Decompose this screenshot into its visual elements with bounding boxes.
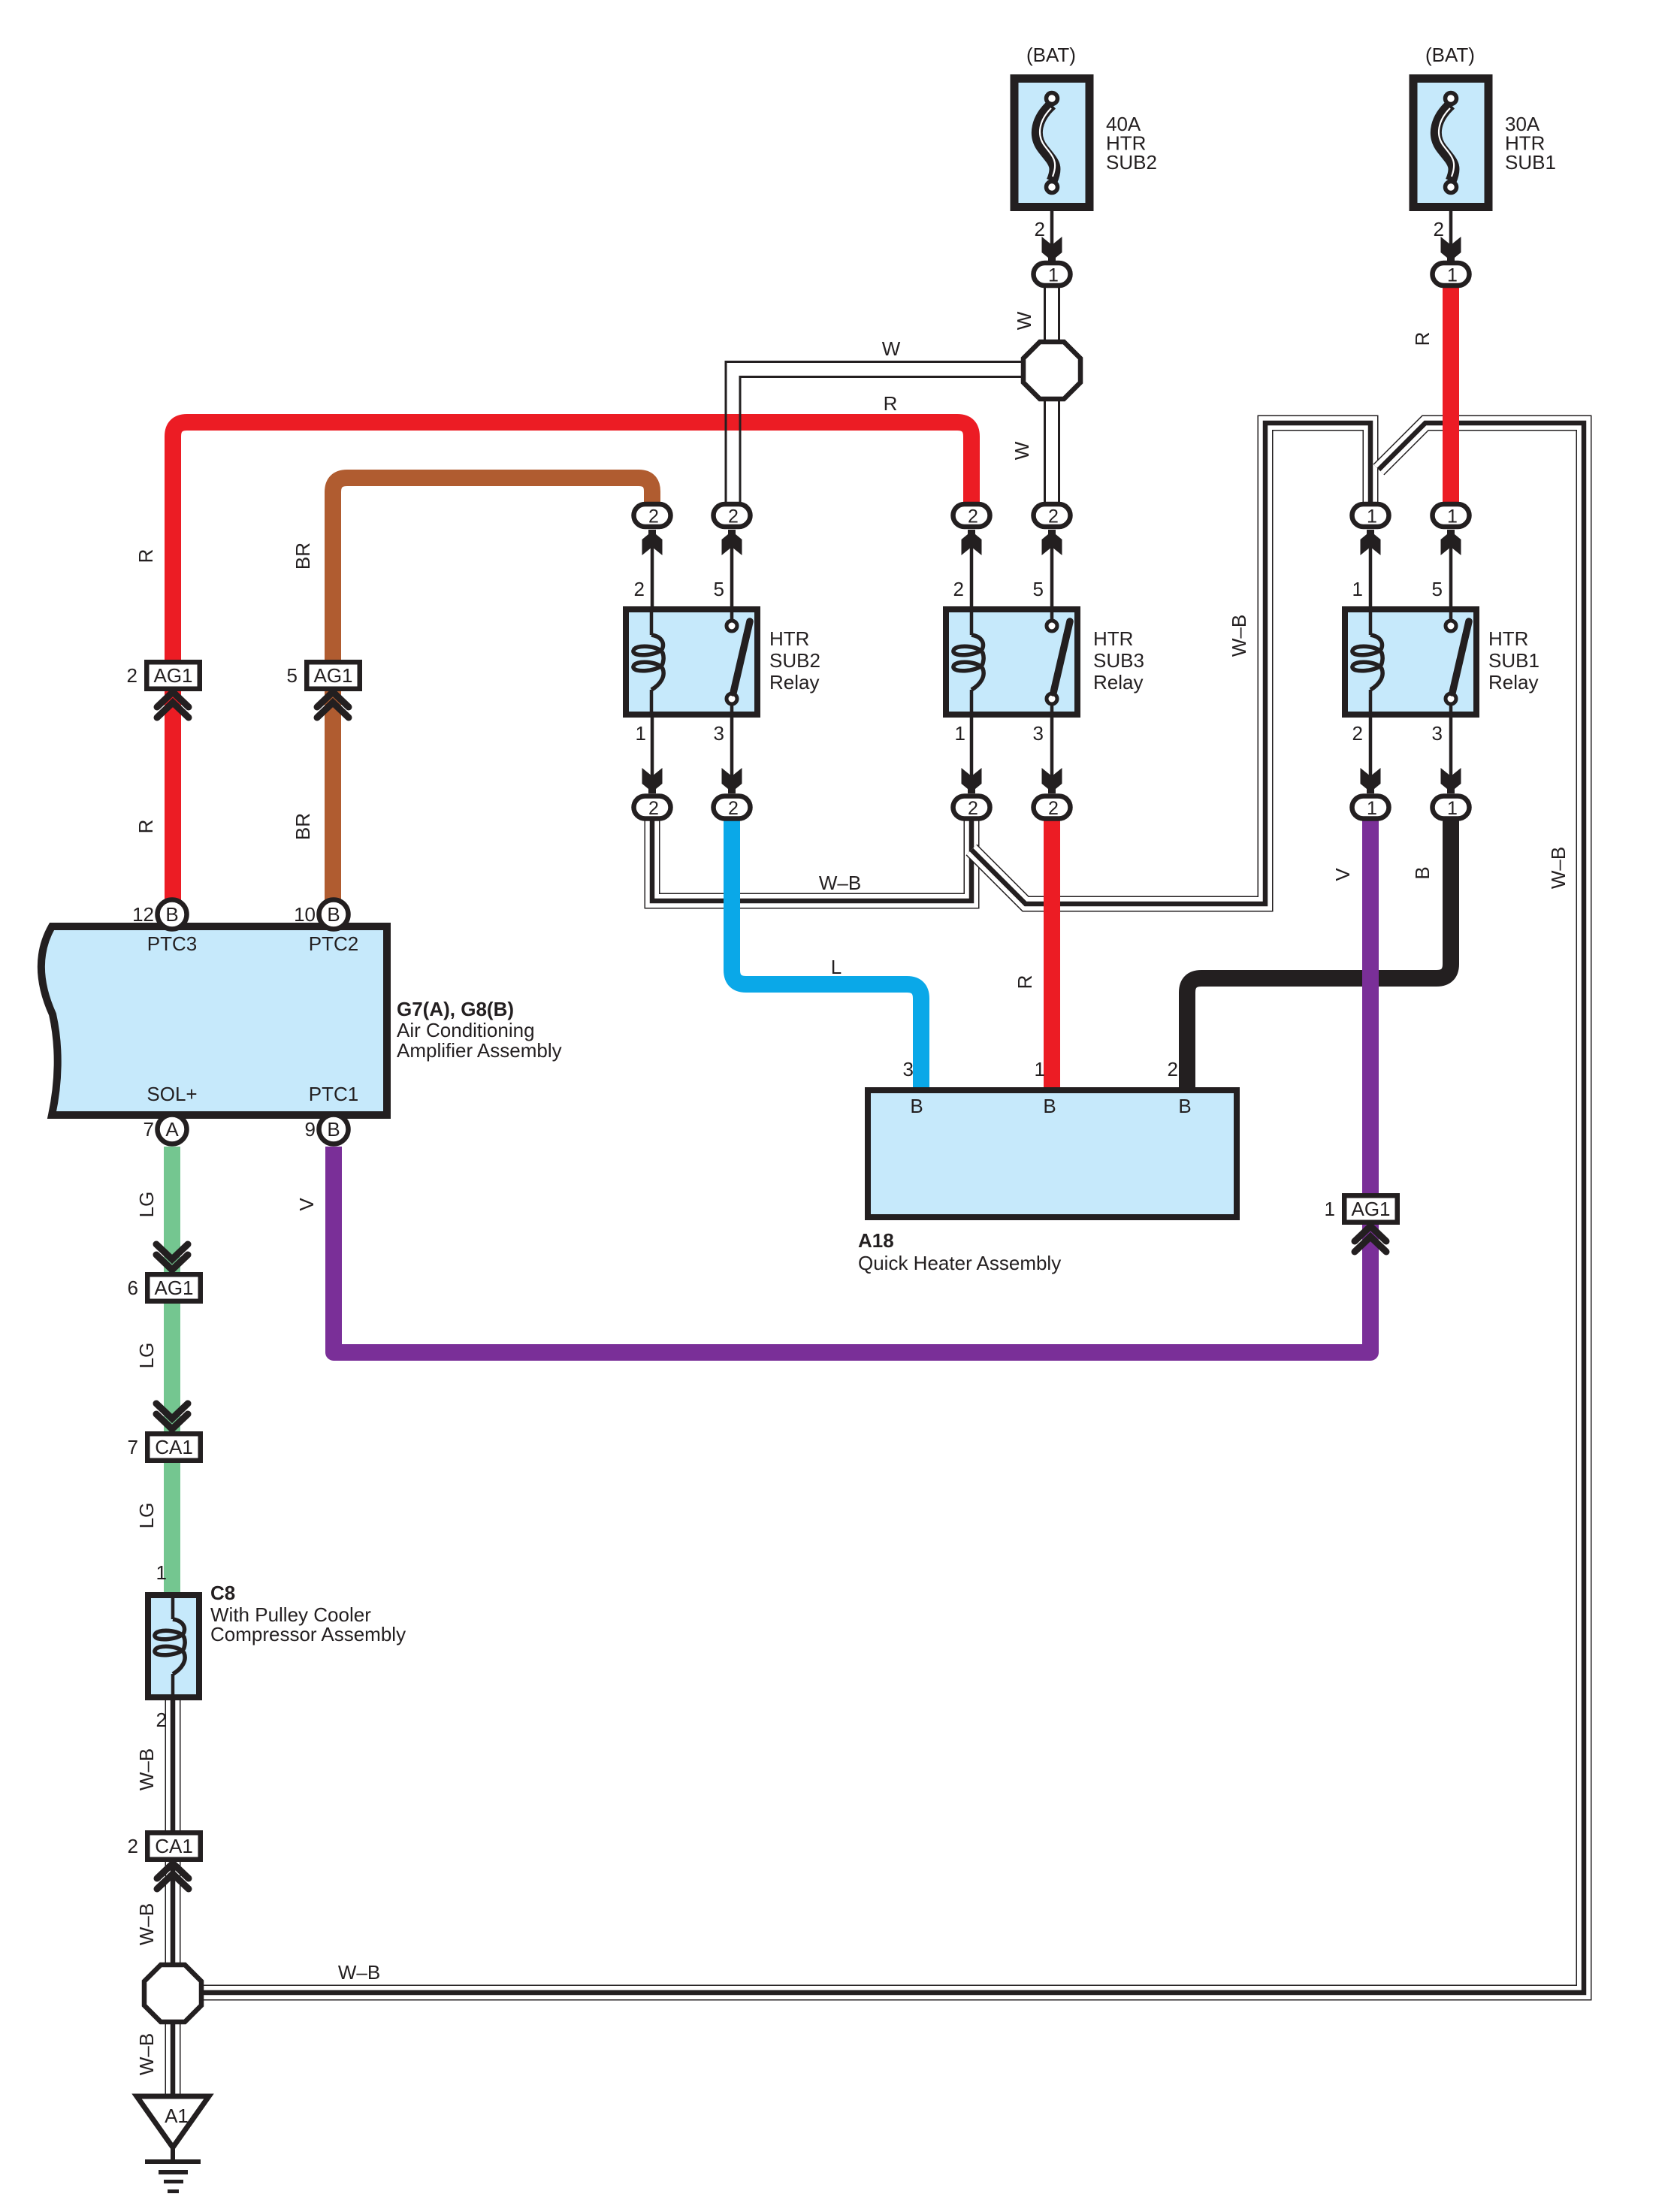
svg-text:G7(A), G8(B): G7(A), G8(B) [397, 998, 514, 1020]
arrow out of relay bottom connector at x=868 [642, 768, 663, 793]
wire stub fuse HTR SUB1 pin 2 to connector [1449, 211, 1453, 247]
svg-text:(BAT): (BAT) [1026, 44, 1076, 66]
connector oval HTR SUB2 relay pin 3 [714, 796, 751, 820]
svg-text:Relay: Relay [1093, 671, 1143, 694]
wire W-B from HTR SUB2 relay pin 1 to splice under relays [652, 817, 971, 901]
label R on red wire to quick heater [1014, 975, 1036, 990]
wire stub into HTR SUB2 relay pin 5 [730, 545, 734, 609]
svg-text:(BAT): (BAT) [1425, 44, 1475, 66]
wire V from A/C amplifier pin 9(B) PTC1 to connector AG1-1 and HTR SUB1 relay pin 2 [334, 819, 1370, 1352]
wire B from HTR SUB1 relay pin 3 to quick heater pin 2 [1187, 819, 1451, 1091]
chevron below connector AG1-2 [157, 692, 189, 718]
svg-text:2: 2 [1048, 798, 1059, 819]
svg-text:W: W [882, 337, 901, 360]
svg-text:A: A [165, 1118, 179, 1141]
svg-text:A1: A1 [165, 2105, 189, 2127]
svg-text:5: 5 [1432, 578, 1443, 600]
arrow into relay top connector at x=1293 [962, 530, 982, 555]
connector oval HTR SUB2 relay pin 1 [634, 796, 671, 820]
svg-text:PTC2: PTC2 [309, 932, 358, 955]
chevron above connector AG1-6 [156, 1244, 188, 1270]
compressor C8 pin labels 1/2 [156, 1561, 167, 1731]
connector oval HTR SUB2 relay pin 5 [714, 504, 751, 527]
svg-text:W–B: W–B [819, 872, 861, 894]
wire W-B ground splice octagon down to ground A1 [165, 2018, 181, 2104]
compressor C8 magnetic clutch coil (With Pulley Cooler Compressor Assembly) [148, 1582, 406, 1697]
connector oval HTR SUB1 relay pin 5 [1433, 504, 1470, 527]
svg-text:V: V [295, 1198, 318, 1211]
arrow into relay top connector at x=974 [722, 530, 742, 555]
wire stub fuse HTR SUB2 pin 2 to connector [1050, 211, 1054, 247]
label W-B above ground A1 [135, 2033, 158, 2075]
fuse 30A HTR SUB1 [1413, 44, 1556, 240]
svg-text:W–B: W–B [1547, 847, 1570, 889]
svg-text:B: B [165, 903, 178, 926]
arrow into relay top connector at x=868 [642, 530, 663, 555]
svg-text:1: 1 [1447, 506, 1458, 527]
svg-text:HTR: HTR [1093, 627, 1133, 650]
svg-text:2: 2 [127, 664, 137, 687]
svg-text:2: 2 [1035, 218, 1045, 240]
label W-B above ground splice [135, 1903, 158, 1945]
svg-text:1: 1 [1048, 265, 1059, 286]
svg-text:2: 2 [1168, 1058, 1178, 1080]
svg-text:1: 1 [156, 1561, 167, 1584]
svg-text:B: B [327, 903, 340, 926]
arrow below fuse HTR SUB1 [1441, 237, 1461, 262]
svg-text:2: 2 [728, 506, 739, 527]
A/C amplifier pin 9(B) PTC1 [305, 1115, 349, 1144]
arrow out of relay bottom connector at x=1824 [1361, 768, 1381, 793]
label BR below connector AG1-5 [292, 813, 314, 840]
svg-text:R: R [884, 392, 898, 415]
connector oval HTR SUB3 relay pin 1 [953, 796, 990, 820]
svg-text:A18: A18 [858, 1229, 894, 1252]
wire stub out of HTR SUB2 relay pin 3 [730, 714, 734, 778]
svg-text:HTR: HTR [769, 627, 809, 650]
label R above connector AG1-2 [134, 549, 157, 564]
svg-text:B: B [1178, 1095, 1191, 1117]
wire stub out of HTR SUB3 relay pin 1 [970, 714, 974, 778]
relay HTR SUB2 (U: HTR SUB2 Relay) [626, 607, 820, 715]
svg-text:B: B [910, 1095, 923, 1117]
svg-text:PTC1: PTC1 [309, 1083, 358, 1105]
label LG above connector AG1-6 [135, 1192, 158, 1218]
arrow out of relay bottom connector at x=1931 [1441, 768, 1461, 793]
relay HTR SUB3 pin labels 2/5/1/3 [953, 578, 1044, 745]
connector AG1 pin 6 (LG wire) [128, 1274, 201, 1301]
connector AG1 pin 2 (R wire) [127, 662, 200, 689]
quick heater assembly A18 [858, 1090, 1237, 1274]
relay HTR SUB1 pin labels 1/5/2/3 [1352, 578, 1443, 745]
relay HTR SUB2 pin labels 2/5/1/3 [634, 578, 724, 745]
A/C amplifier pin 7(A) SOL+ [144, 1115, 187, 1144]
wire R from connector AG1-2 up and across to HTR SUB3 relay pin 2 [173, 422, 971, 905]
svg-text:LG: LG [135, 1343, 158, 1369]
A/C amplifier assembly G7(A) G8(B) [41, 926, 562, 1115]
svg-text:SUB2: SUB2 [769, 649, 820, 672]
label V on violet wire below amplifier [295, 1198, 318, 1211]
svg-text:3: 3 [1033, 722, 1044, 745]
svg-text:3: 3 [1432, 722, 1443, 745]
chevron below connector AG1-5 [317, 692, 349, 718]
svg-text:1: 1 [1367, 798, 1377, 819]
svg-text:Air Conditioning: Air Conditioning [397, 1019, 535, 1041]
svg-text:2: 2 [1048, 506, 1059, 527]
svg-text:SUB2: SUB2 [1106, 151, 1157, 174]
label W below fuse HTR SUB2 [1013, 311, 1035, 330]
svg-text:1: 1 [1325, 1198, 1335, 1220]
svg-text:W–B: W–B [1228, 615, 1250, 657]
svg-text:SUB3: SUB3 [1093, 649, 1144, 672]
chevron below connector CA1-2 [157, 1863, 189, 1889]
svg-text:1: 1 [636, 722, 646, 745]
connector AG1 pin 5 (BR wire) [287, 662, 360, 689]
svg-text:L: L [831, 956, 842, 978]
svg-text:W–B: W–B [135, 1748, 158, 1790]
wire stub into HTR SUB1 relay pin 5 [1449, 545, 1453, 609]
A/C amplifier pin 12(B) PTC3 [132, 900, 186, 929]
svg-text:7: 7 [144, 1118, 154, 1141]
svg-text:LG: LG [135, 1192, 158, 1218]
svg-text:2: 2 [648, 798, 659, 819]
wire stub out of HTR SUB1 relay pin 3 [1449, 714, 1453, 778]
svg-text:CA1: CA1 [155, 1835, 193, 1857]
connector oval HTR SUB3 relay pin 2 [953, 504, 990, 527]
wire stub into HTR SUB3 relay pin 2 [970, 545, 974, 609]
svg-text:6: 6 [128, 1277, 138, 1299]
svg-text:R: R [1411, 332, 1434, 346]
svg-text:SUB1: SUB1 [1505, 151, 1556, 174]
wire W from fuse HTR SUB2 down through splice octagon to HTR SUB3 relay pin 5 [1045, 288, 1059, 503]
svg-text:12: 12 [132, 903, 154, 926]
svg-text:B: B [1411, 866, 1434, 879]
svg-text:AG1: AG1 [153, 664, 192, 687]
label W-B on right ground bus [1547, 847, 1570, 889]
A/C amplifier pin 10(B) PTC2 [294, 900, 348, 929]
wire stub out of HTR SUB1 relay pin 2 [1369, 714, 1373, 778]
svg-text:2: 2 [728, 798, 739, 819]
svg-text:Compressor Assembly: Compressor Assembly [210, 1623, 406, 1645]
svg-text:5: 5 [1033, 578, 1044, 600]
svg-text:W–B: W–B [135, 2033, 158, 2075]
arrow out of relay bottom connector at x=1400 [1042, 768, 1062, 793]
connector AG1 pin 1 (V wire) [1325, 1195, 1397, 1222]
svg-text:1: 1 [1352, 578, 1363, 600]
label L on blue wire [831, 956, 842, 978]
label W-B on left riser [1228, 615, 1250, 657]
arrow into relay top connector at x=1400 [1042, 530, 1062, 555]
label W above HTR SUB3 relay pin 5 [1011, 441, 1033, 460]
svg-text:3: 3 [714, 722, 724, 745]
svg-text:W: W [1013, 311, 1035, 330]
label BR above connector AG1-5 [292, 542, 314, 570]
label B on black wire right side [1411, 866, 1434, 879]
svg-text:R: R [1014, 975, 1036, 990]
svg-text:W: W [1011, 441, 1033, 460]
svg-text:Quick Heater Assembly: Quick Heater Assembly [858, 1252, 1061, 1274]
wire LG from A/C amplifier pin 7(A) SOL+ down to compressor C8 pin 1 [164, 1147, 180, 1594]
connector oval pin 1 fuse HTR SUB1 output [1433, 263, 1470, 286]
connector oval pin 1 fuse HTR SUB2 output [1034, 263, 1071, 286]
wire W-B crossover jog to left riser and HTR SUB1 relay pin 1 [971, 423, 1370, 904]
svg-text:AG1: AG1 [313, 664, 352, 687]
svg-text:2: 2 [128, 1835, 138, 1857]
svg-text:AG1: AG1 [1351, 1198, 1390, 1220]
svg-text:LG: LG [135, 1503, 158, 1529]
wire W-B top jog to right-side ground bus riser and bottom run to splice [192, 423, 1584, 1993]
svg-text:1: 1 [1447, 265, 1458, 286]
svg-text:R: R [134, 820, 157, 834]
label LG above compressor C8 [135, 1503, 158, 1529]
arrow into relay top connector at x=1931 [1441, 530, 1461, 555]
wire L from HTR SUB2 relay pin 3 to quick heater pin 3 [732, 819, 921, 1091]
chevron below connector AG1-1 [1355, 1226, 1386, 1252]
label V on violet wire right side [1331, 868, 1354, 881]
arrow out of relay bottom connector at x=1293 [962, 768, 982, 793]
svg-text:1: 1 [1447, 798, 1458, 819]
ground A1 symbol [137, 2096, 209, 2193]
wire stub into HTR SUB1 relay pin 1 [1369, 545, 1373, 609]
svg-text:2: 2 [648, 506, 659, 527]
svg-text:BR: BR [292, 813, 314, 840]
svg-text:HTR: HTR [1488, 627, 1528, 650]
relay HTR SUB1 (U: HTR SUB1 Relay) [1345, 607, 1540, 715]
chevron above connector CA1-7 [156, 1404, 188, 1429]
svg-text:1: 1 [1035, 1058, 1045, 1080]
svg-text:CA1: CA1 [155, 1436, 193, 1458]
connector oval HTR SUB2 relay pin 2 [634, 504, 671, 527]
arrow below fuse HTR SUB2 [1042, 237, 1062, 262]
label R on horizontal jumper [884, 392, 898, 415]
connector oval HTR SUB3 relay pin 5 [1034, 504, 1071, 527]
connector oval HTR SUB3 relay pin 3 [1034, 796, 1071, 820]
svg-text:2: 2 [953, 578, 964, 600]
wire BR from connector AG1-5 up and across to HTR SUB2 relay pin 2 [333, 478, 652, 905]
label W on horizontal branch [882, 337, 901, 360]
svg-text:SOL+: SOL+ [147, 1083, 197, 1105]
svg-text:V: V [1331, 868, 1354, 881]
svg-text:7: 7 [128, 1436, 138, 1458]
wire R from fuse HTR SUB1 down to HTR SUB1 relay pin 5 [1443, 288, 1459, 505]
svg-text:2: 2 [1434, 218, 1444, 240]
label R below fuse HTR SUB1 [1411, 332, 1434, 346]
wire stub into HTR SUB2 relay pin 2 [651, 545, 654, 609]
svg-text:W–B: W–B [338, 1961, 380, 1984]
svg-text:B: B [1043, 1095, 1056, 1117]
wire stub into HTR SUB3 relay pin 5 [1050, 545, 1054, 609]
label R below connector AG1-2 [134, 820, 157, 834]
label LG between AG1-6 and CA1-7 [135, 1343, 158, 1369]
label W-B below compressor C8 [135, 1748, 158, 1790]
svg-text:5: 5 [714, 578, 724, 600]
svg-text:Relay: Relay [769, 671, 819, 694]
quick heater pin labels 3/1/2 [903, 1058, 1178, 1080]
label W-B on lower relay bus [819, 872, 861, 894]
wire W branch from splice octagon left to HTR SUB2 relay pin 5 [726, 362, 1025, 503]
wire stub out of HTR SUB3 relay pin 3 [1050, 714, 1054, 778]
wire W-B connector CA1-2 down to ground splice octagon [165, 1856, 181, 1969]
svg-text:2: 2 [968, 506, 978, 527]
svg-text:2: 2 [634, 578, 645, 600]
svg-text:2: 2 [1352, 722, 1363, 745]
connector CA1 pin 7 (LG wire) [128, 1434, 201, 1461]
wire R from HTR SUB3 relay pin 3 to quick heater pin 1 [1044, 819, 1060, 1091]
svg-text:W–B: W–B [135, 1903, 158, 1945]
fuse 40A HTR SUB2 [1014, 44, 1157, 240]
wire stub out of HTR SUB2 relay pin 1 [651, 714, 654, 778]
svg-text:5: 5 [287, 664, 298, 687]
wire W-B compressor C8 pin 2 down to connector CA1-2 [165, 1698, 181, 1837]
svg-text:PTC3: PTC3 [147, 932, 197, 955]
svg-text:1: 1 [1367, 506, 1377, 527]
svg-text:B: B [327, 1118, 340, 1141]
svg-text:Amplifier Assembly: Amplifier Assembly [397, 1039, 562, 1062]
svg-text:C8: C8 [210, 1582, 235, 1604]
svg-text:3: 3 [903, 1058, 914, 1080]
connector oval HTR SUB1 relay pin 1 [1352, 504, 1389, 527]
svg-text:AG1: AG1 [154, 1277, 193, 1299]
connector oval HTR SUB1 relay pin 3 [1433, 796, 1470, 820]
svg-text:2: 2 [156, 1709, 167, 1731]
svg-text:Relay: Relay [1488, 671, 1538, 694]
svg-text:R: R [134, 549, 157, 564]
svg-text:1: 1 [955, 722, 965, 745]
svg-text:9: 9 [305, 1118, 316, 1141]
splice octagon for W-B ground net lower left [144, 1965, 201, 2022]
arrow out of relay bottom connector at x=974 [722, 768, 742, 793]
label W-B on bottom ground run [338, 1961, 380, 1984]
svg-text:BR: BR [292, 542, 314, 570]
arrow into relay top connector at x=1824 [1361, 530, 1381, 555]
svg-text:10: 10 [294, 903, 316, 926]
splice octagon for W wire under fuse HTR SUB2 [1023, 342, 1080, 399]
connector CA1 pin 2 (W-B wire) [128, 1833, 201, 1860]
connector oval HTR SUB1 relay pin 2 [1352, 796, 1389, 820]
svg-text:SUB1: SUB1 [1488, 649, 1540, 672]
relay HTR SUB3 (U: HTR SUB3 Relay) [946, 607, 1144, 715]
svg-text:2: 2 [968, 798, 978, 819]
